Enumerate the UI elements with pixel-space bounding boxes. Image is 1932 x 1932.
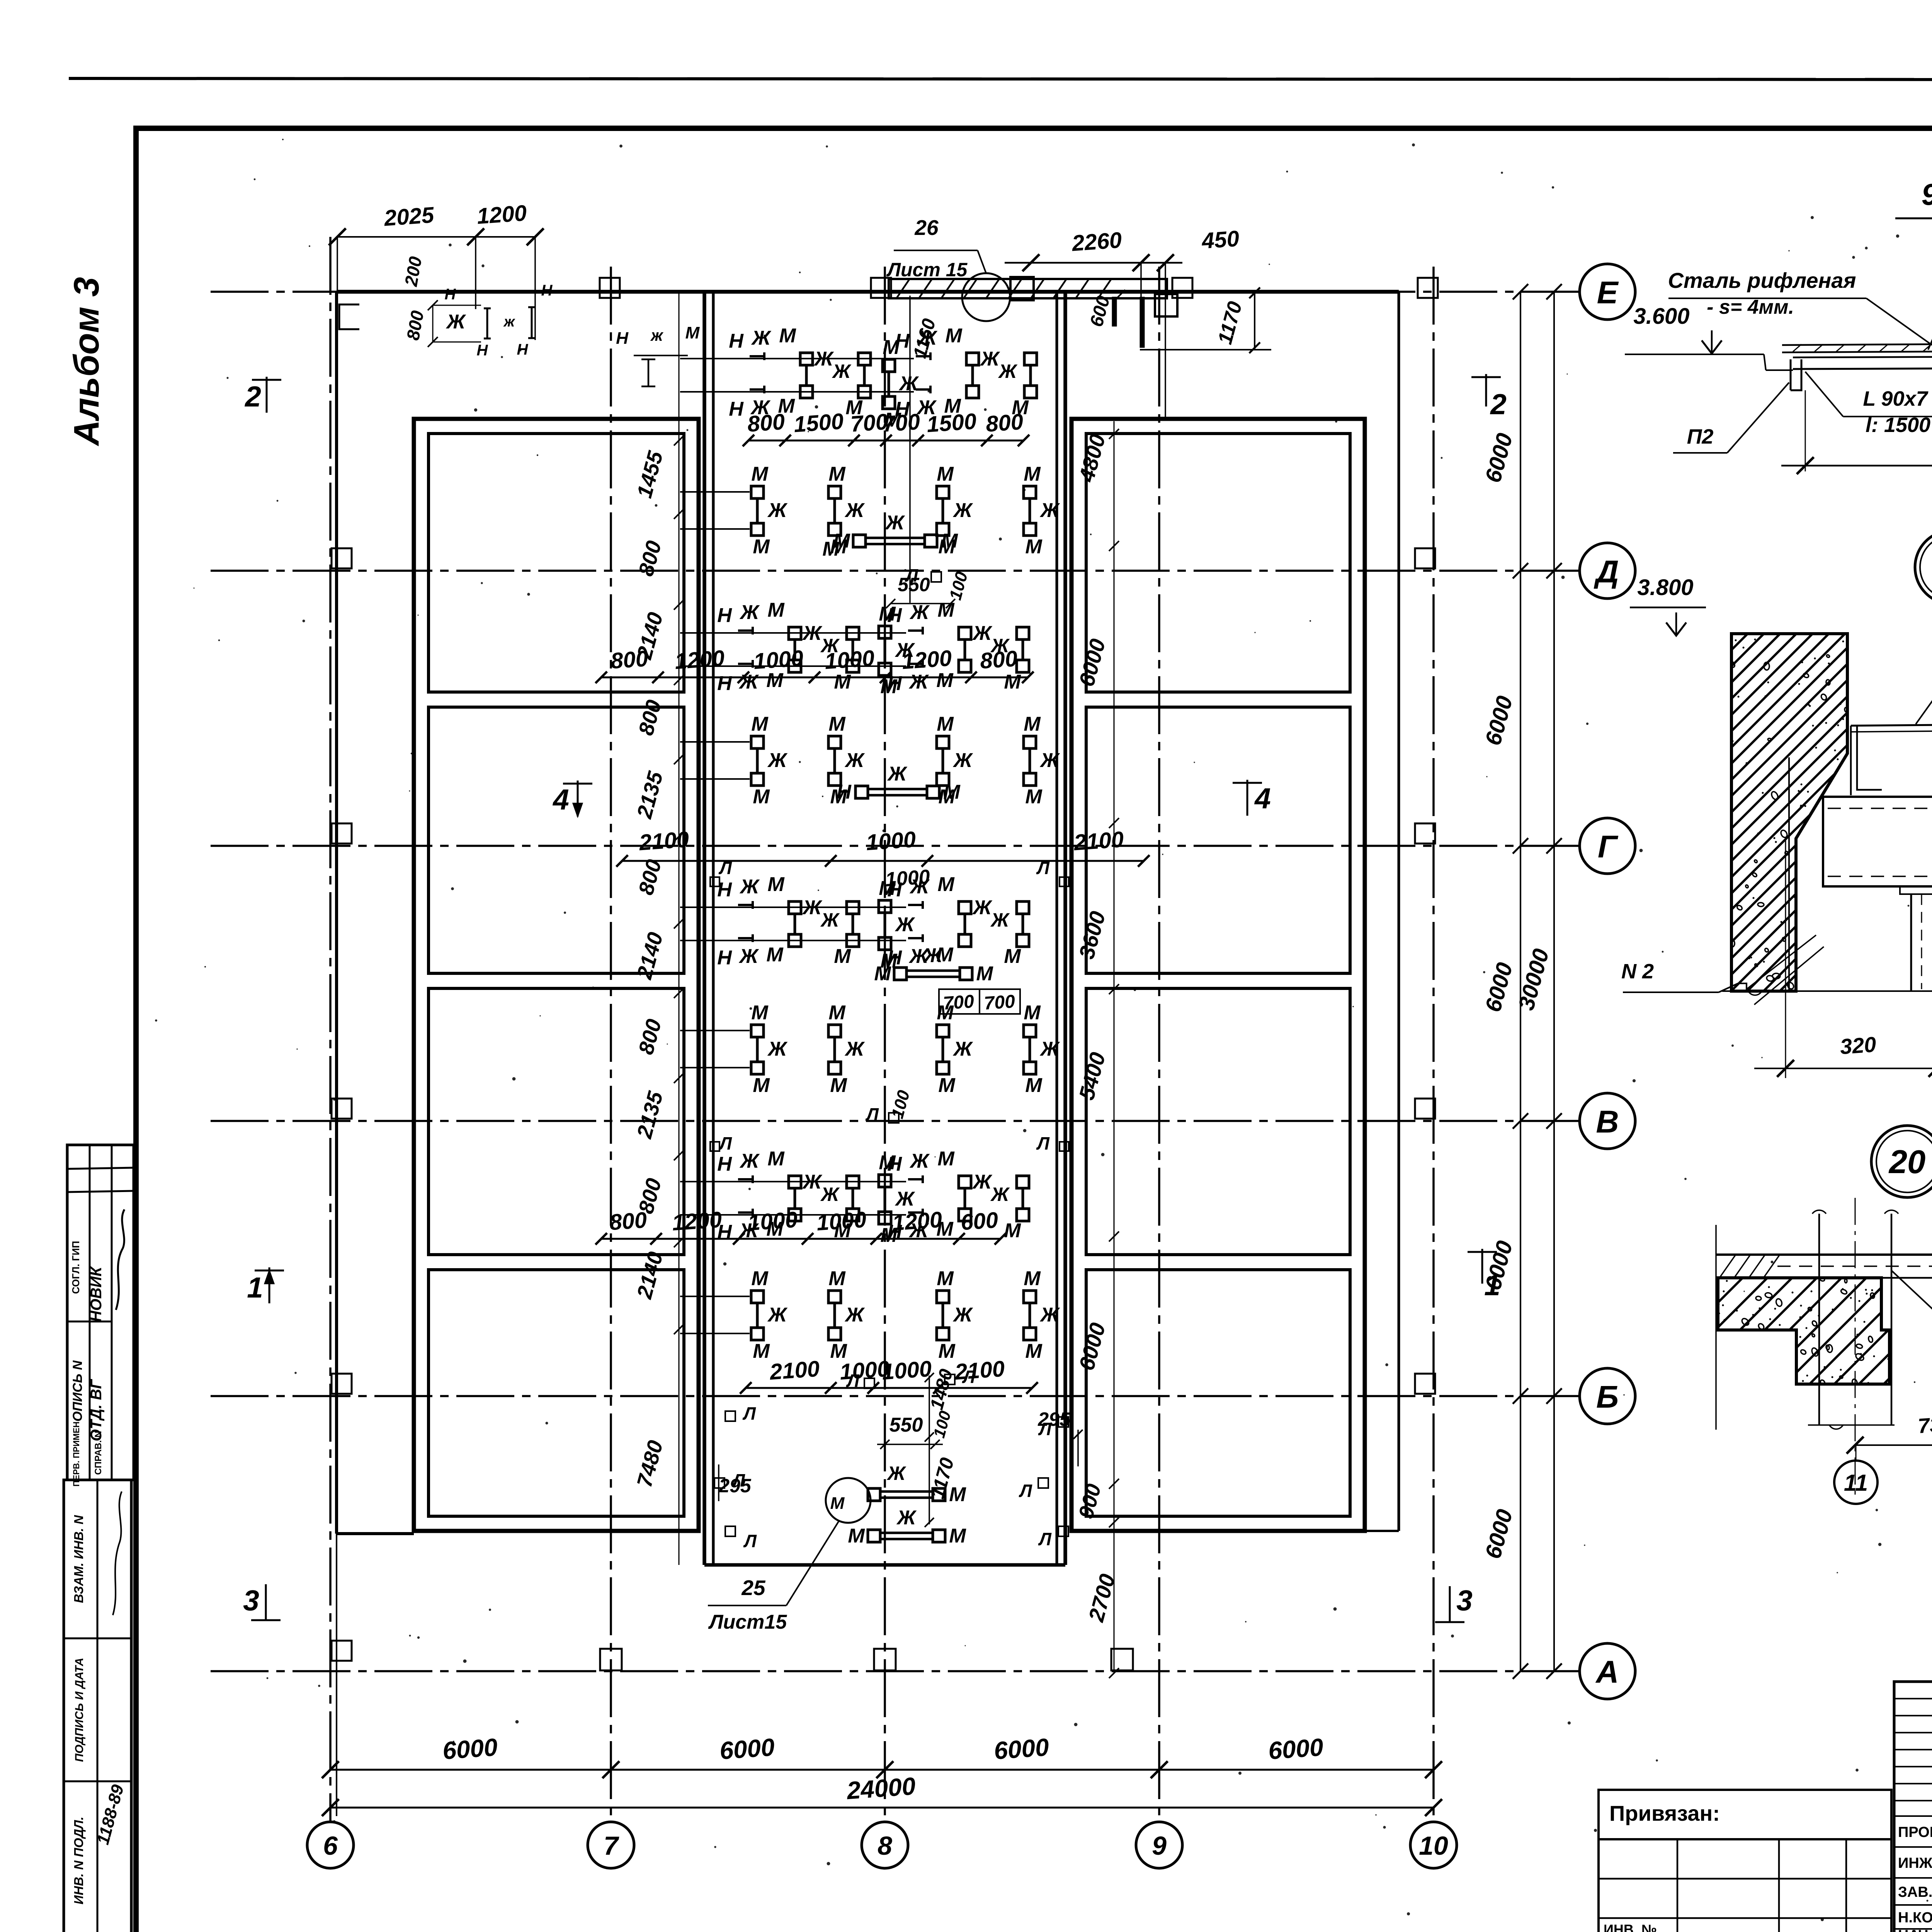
svg-text:Сталь рифленая: Сталь рифленая xyxy=(1668,268,1856,293)
beam symbol pair xyxy=(937,1291,949,1303)
Л markers bottom xyxy=(725,1411,735,1421)
svg-text:ПРОВЕР.: ПРОВЕР. xyxy=(1898,1824,1932,1840)
svg-text:Ж: Ж xyxy=(844,1304,865,1326)
left dimension chain 800/2140... xyxy=(679,294,680,1565)
detail 18 base plate xyxy=(1900,886,1932,894)
svg-text:М: М xyxy=(1004,1219,1021,1242)
svg-text:450: 450 xyxy=(1201,226,1240,254)
svg-text:М: М xyxy=(938,1074,956,1097)
svg-text:Ж: Ж xyxy=(739,876,760,898)
detail bubble 20 xyxy=(1871,1126,1932,1197)
svg-text:М: М xyxy=(879,603,896,625)
svg-text:ОПИСЬ N: ОПИСЬ N xyxy=(70,1360,85,1422)
svg-text:Ж: Ж xyxy=(895,913,915,936)
svg-text:2100: 2100 xyxy=(638,827,690,855)
svg-text:Ж: Ж xyxy=(767,749,788,772)
svg-text:4: 4 xyxy=(552,783,569,816)
axis line В xyxy=(211,1120,1580,1122)
detail 9-9 tray top plate xyxy=(1782,343,1932,345)
svg-text:Ж: Ж xyxy=(739,601,760,624)
svg-text:М: М xyxy=(751,1002,769,1024)
svg-text:М: М xyxy=(751,463,769,485)
svg-text:Н: Н xyxy=(837,781,852,803)
svg-text:800: 800 xyxy=(747,409,786,437)
detail 18 column xyxy=(1910,894,1912,991)
beam symbol horizontal xyxy=(868,1530,880,1542)
title block staff table xyxy=(1894,1682,1932,1932)
svg-text:М: М xyxy=(937,1267,954,1290)
column symbols on walls xyxy=(332,548,352,568)
svg-text:Л: Л xyxy=(865,1104,879,1124)
svg-text:М: М xyxy=(828,1267,846,1290)
svg-text:1000: 1000 xyxy=(824,646,875,674)
right dimension column 6000s xyxy=(1520,292,1521,1671)
svg-text:Н: Н xyxy=(717,879,732,901)
svg-text:М: М xyxy=(937,1148,955,1170)
tank block left cell 4 inner wall xyxy=(429,1270,684,1516)
building top wall on axis E xyxy=(337,290,1399,294)
svg-text:3.800: 3.800 xyxy=(1637,575,1693,600)
svg-text:Ж: Ж xyxy=(990,1184,1010,1205)
beam symbol horizontal xyxy=(855,786,868,798)
svg-text:Е: Е xyxy=(1597,275,1619,310)
svg-text:Ж: Ж xyxy=(972,622,993,645)
svg-text:Ж: Ж xyxy=(1039,499,1060,522)
svg-text:М: М xyxy=(943,781,961,803)
svg-text:СПРАВ. N: СПРАВ. N xyxy=(93,1431,104,1475)
svg-text:НАЧ.ОТД: НАЧ.ОТД xyxy=(1898,1927,1932,1932)
svg-text:Н: Н xyxy=(616,329,629,348)
svg-text:М: М xyxy=(766,944,784,966)
svg-text:М: М xyxy=(976,963,993,985)
building bottom wall connector right xyxy=(1365,1530,1399,1532)
svg-text:Ж: Ж xyxy=(1039,1038,1060,1060)
svg-text:М: М xyxy=(941,530,958,552)
svg-text:М: М xyxy=(874,963,891,985)
right dimension column 30000 xyxy=(1553,292,1555,1671)
svg-text:1200: 1200 xyxy=(891,1207,943,1236)
svg-text:М: М xyxy=(1025,1074,1043,1097)
svg-text:3: 3 xyxy=(1456,1584,1473,1617)
beam symbol pair xyxy=(879,626,891,638)
dimension chain xyxy=(622,860,1144,862)
svg-text:М: М xyxy=(828,1002,846,1024)
detail 20 slab band xyxy=(1716,1253,1932,1256)
svg-text:Ж: Ж xyxy=(896,1507,917,1529)
detail 9-9 dim 1300 xyxy=(1781,465,1932,467)
svg-text:Ж: Ж xyxy=(446,311,466,333)
svg-text:2: 2 xyxy=(244,380,261,413)
svg-text:24000: 24000 xyxy=(845,1772,917,1804)
svg-text:2025: 2025 xyxy=(383,202,435,231)
svg-text:800: 800 xyxy=(609,1207,648,1235)
svg-text:Л: Л xyxy=(846,1371,860,1391)
svg-text:Л: Л xyxy=(1036,1133,1050,1153)
svg-text:Л: Л xyxy=(718,1133,732,1153)
svg-text:М: М xyxy=(1004,671,1021,693)
svg-text:М: М xyxy=(937,713,954,735)
svg-text:Ж: Ж xyxy=(952,749,973,772)
svg-text:Ж: Ж xyxy=(887,763,908,785)
detail 18 ground line xyxy=(1722,990,1932,992)
beam symbol pair xyxy=(828,1025,841,1037)
svg-text:Н: Н xyxy=(541,282,553,299)
svg-text:Ж: Ж xyxy=(820,909,840,931)
beam symbol pair xyxy=(1024,736,1036,748)
axis line А xyxy=(211,1670,1580,1672)
svg-text:1200: 1200 xyxy=(901,646,952,674)
svg-text:ж: ж xyxy=(650,326,664,344)
svg-text:М: М xyxy=(1025,1340,1043,1362)
beam symbol pair xyxy=(937,1025,949,1037)
svg-text:1200: 1200 xyxy=(674,646,725,674)
beam symbol pair xyxy=(937,486,949,498)
svg-text:Ж: Ж xyxy=(980,348,1000,370)
beam symbol pair xyxy=(680,1296,750,1297)
detail 18 inner wall line xyxy=(1788,757,1790,991)
svg-text:М: М xyxy=(1024,1002,1041,1024)
grid line 6 xyxy=(329,237,332,1823)
svg-text:26: 26 xyxy=(914,216,939,240)
svg-text:СОГЛ. ГИП: СОГЛ. ГИП xyxy=(70,1241,82,1294)
tank block right cell 2 inner wall xyxy=(1086,707,1350,973)
beam symbol pair xyxy=(883,359,895,372)
svg-text:НОВИК: НОВИК xyxy=(88,1266,105,1322)
svg-text:М: М xyxy=(753,1340,770,1362)
svg-text:ВЗАМ. ИНВ. N: ВЗАМ. ИНВ. N xyxy=(71,1515,86,1603)
svg-text:Альбом 3: Альбом 3 xyxy=(67,277,106,446)
detail 20 lower break line xyxy=(1808,1424,1895,1426)
detail 20 dim 730 xyxy=(1855,1444,1932,1446)
svg-text:25: 25 xyxy=(741,1576,766,1600)
axis circle А xyxy=(1580,1643,1635,1699)
wall bracket symbol at E xyxy=(339,304,359,329)
svg-text:700: 700 xyxy=(882,409,921,437)
svg-text:М: М xyxy=(879,877,896,900)
svg-text:6: 6 xyxy=(323,1831,338,1861)
svg-text:Ж: Ж xyxy=(990,909,1010,931)
svg-text:Л: Л xyxy=(731,1470,745,1490)
svg-text:4: 4 xyxy=(1254,782,1271,815)
svg-text:6000: 6000 xyxy=(993,1733,1050,1765)
svg-text:7: 7 xyxy=(604,1831,619,1861)
svg-text:Лист15: Лист15 xyxy=(708,1611,787,1633)
beam symbol horizontal xyxy=(853,535,866,547)
svg-text:М: М xyxy=(879,1151,896,1174)
svg-text:2: 2 xyxy=(1490,388,1507,420)
svg-text:11: 11 xyxy=(1844,1470,1868,1496)
svg-text:М: М xyxy=(828,713,846,735)
grid bubble 7 xyxy=(588,1822,634,1868)
svg-text:Ж: Ж xyxy=(820,1184,840,1205)
svg-text:600: 600 xyxy=(960,1207,999,1235)
svg-text:М: М xyxy=(945,325,963,347)
beam symbol pair xyxy=(828,486,841,498)
svg-text:ПОДПИСЬ И ДАТА: ПОДПИСЬ И ДАТА xyxy=(73,1658,86,1762)
svg-text:800: 800 xyxy=(979,646,1018,674)
svg-text:3.600: 3.600 xyxy=(1633,304,1689,329)
svg-text:Ж: Ж xyxy=(952,499,973,522)
axis circle Д xyxy=(1580,543,1635,599)
svg-text:М: М xyxy=(753,536,770,558)
svg-text:Н: Н xyxy=(717,947,732,969)
svg-text:8: 8 xyxy=(878,1831,892,1861)
svg-text:Л: Л xyxy=(1038,1529,1052,1549)
svg-text:Н: Н xyxy=(717,1153,732,1175)
svg-text:М: М xyxy=(1004,945,1021,968)
top-left stanchion symbols xyxy=(484,308,491,338)
svg-text:М: М xyxy=(767,873,785,896)
beam symbol pair xyxy=(937,736,949,748)
svg-text:Ж: Ж xyxy=(895,1188,915,1210)
svg-text:Н: Н xyxy=(477,342,488,359)
top dimension line 2260/450 xyxy=(1005,262,1182,264)
grid line 8 xyxy=(884,267,886,1823)
svg-text:ИНВ. №: ИНВ. № xyxy=(1604,1922,1657,1932)
svg-text:Б: Б xyxy=(1596,1379,1619,1415)
svg-text:М: М xyxy=(937,1002,954,1024)
detail 18 dim 320 xyxy=(1785,838,1786,1078)
tank block left cell 1 inner wall xyxy=(429,434,684,692)
svg-text:М: М xyxy=(937,599,955,621)
svg-text:Н: Н xyxy=(517,341,529,358)
svg-text:ИНЖ.: ИНЖ. xyxy=(1898,1855,1932,1871)
axis line Б xyxy=(211,1395,1580,1397)
central strip left wall xyxy=(702,292,706,1565)
beam symbol pair xyxy=(680,741,750,743)
grid bubble 8 xyxy=(862,1822,908,1868)
inner dimension chain 4800... xyxy=(1114,421,1115,1673)
svg-text:М: М xyxy=(936,669,954,692)
beam symbol pair xyxy=(680,491,750,493)
svg-text:Ж: Ж xyxy=(767,1304,788,1326)
svg-text:- s= 4мм.: - s= 4мм. xyxy=(1707,296,1794,318)
bottom dimension row 24000 xyxy=(330,1807,1434,1809)
svg-text:М: М xyxy=(949,1525,966,1547)
hatched beam on axis E xyxy=(889,279,1167,298)
beam symbol pair xyxy=(1024,1025,1036,1037)
svg-text:Ж: Ж xyxy=(952,1038,973,1060)
grid bubble 9 xyxy=(1136,1822,1182,1868)
svg-text:Ж: Ж xyxy=(844,499,865,522)
svg-text:1500: 1500 xyxy=(793,409,844,437)
grid line 10 xyxy=(1432,267,1435,1823)
grid bubble 6 xyxy=(307,1822,354,1868)
svg-text:Ж: Ж xyxy=(908,671,929,693)
beam symbol pair xyxy=(828,736,841,748)
sheet top edge line xyxy=(69,78,1932,80)
svg-text:Ж: Ж xyxy=(886,1463,906,1484)
привязан table xyxy=(1599,1790,1891,1839)
svg-text:М: М xyxy=(1025,536,1043,558)
svg-text:М: М xyxy=(779,325,796,347)
svg-text:А: А xyxy=(1595,1655,1619,1690)
svg-text:2100: 2100 xyxy=(769,1356,820,1385)
svg-text:Ж: Ж xyxy=(738,945,759,968)
leader circle at beam xyxy=(962,273,1010,321)
axis line Е xyxy=(211,291,1580,293)
beam symbol pair xyxy=(680,1030,750,1031)
dimension chain xyxy=(748,440,1024,442)
svg-text:М: М xyxy=(1024,463,1041,485)
svg-text:1500: 1500 xyxy=(926,409,977,437)
svg-text:М: М xyxy=(883,336,900,359)
detail 20 left edge xyxy=(1715,1225,1717,1430)
svg-text:Ж: Ж xyxy=(751,327,772,349)
svg-text:6000: 6000 xyxy=(719,1733,776,1765)
detail 18 slab plate xyxy=(1851,724,1932,726)
beam symbol pair xyxy=(828,1291,841,1303)
svg-text:М: М xyxy=(834,671,851,693)
svg-text:L 90х7: L 90х7 xyxy=(1863,387,1929,410)
svg-text:М: М xyxy=(685,323,700,342)
svg-text:М: М xyxy=(937,463,954,485)
svg-text:Ж: Ж xyxy=(917,327,938,349)
detail bubble 11 xyxy=(1834,1461,1878,1504)
svg-text:Л: Л xyxy=(962,1367,976,1387)
svg-text:ПЕРВ. ПРИМЕН.: ПЕРВ. ПРИМЕН. xyxy=(71,1419,81,1487)
beam symbol pair xyxy=(879,900,891,913)
svg-text:Л: Л xyxy=(1019,1481,1032,1501)
svg-text:1000: 1000 xyxy=(865,827,917,855)
svg-text:Ж: Ж xyxy=(909,1150,930,1172)
svg-text:Лист 15: Лист 15 xyxy=(886,259,968,281)
svg-text:6000: 6000 xyxy=(442,1733,498,1765)
svg-text:20: 20 xyxy=(1888,1144,1926,1180)
svg-text:Н: Н xyxy=(717,604,732,627)
svg-text:М: М xyxy=(767,599,785,621)
svg-text:В: В xyxy=(1596,1104,1619,1139)
svg-text:1: 1 xyxy=(247,1271,263,1304)
svg-text:Н: Н xyxy=(717,672,732,695)
svg-text:N 2: N 2 xyxy=(1621,960,1654,983)
svg-text:10: 10 xyxy=(1419,1831,1448,1861)
axis circle В xyxy=(1580,1093,1635,1149)
svg-text:800: 800 xyxy=(985,409,1024,437)
tank block right cell 4 inner wall xyxy=(1086,1270,1350,1516)
grid line 7 xyxy=(610,267,612,1823)
svg-text:Ж: Ж xyxy=(998,361,1018,382)
svg-text:2100: 2100 xyxy=(954,1356,1005,1385)
svg-text:Ж: Ж xyxy=(767,499,788,522)
svg-text:М: М xyxy=(767,1148,785,1170)
svg-text:ИНВ. N ПОДЛ.: ИНВ. N ПОДЛ. xyxy=(71,1816,86,1904)
svg-text:Ж: Ж xyxy=(909,876,930,898)
beam symbol pair xyxy=(879,1175,891,1187)
svg-text:800: 800 xyxy=(610,646,649,674)
central strip bottom wall xyxy=(704,1563,1065,1567)
svg-text:М: М xyxy=(1025,786,1043,808)
svg-text:550: 550 xyxy=(889,1414,923,1436)
left stamp lower box xyxy=(64,1480,131,1932)
svg-text:1000: 1000 xyxy=(747,1207,798,1236)
svg-text:Ж: Ж xyxy=(972,1171,993,1193)
svg-text:М: М xyxy=(753,786,770,808)
svg-text:1200: 1200 xyxy=(476,201,527,229)
beam symbol horizontal xyxy=(868,1488,880,1501)
svg-text:Ж: Ж xyxy=(909,601,930,624)
leader circle M bottom xyxy=(826,1478,871,1523)
svg-text:700: 700 xyxy=(983,991,1016,1014)
svg-text:1200: 1200 xyxy=(671,1207,723,1236)
svg-text:М: М xyxy=(937,873,955,896)
svg-text:9: 9 xyxy=(1152,1831,1167,1861)
svg-text:Ж: Ж xyxy=(972,896,993,919)
beam symbol horizontal xyxy=(894,968,906,980)
dimension chain xyxy=(746,1387,1032,1389)
left stamp upper box xyxy=(67,1145,134,1480)
svg-text:М: М xyxy=(834,945,851,968)
svg-text:Л: Л xyxy=(1038,1419,1052,1439)
svg-text:М: М xyxy=(830,1494,845,1513)
top dimension line 2025/1200 xyxy=(337,236,535,238)
svg-text:9· 9: 9· 9 xyxy=(1922,177,1932,211)
bottom dimension row 6000s xyxy=(330,1769,1434,1771)
svg-text:М: М xyxy=(1024,1267,1041,1290)
grid line 9 xyxy=(1158,267,1160,1823)
svg-text:М: М xyxy=(822,538,840,560)
svg-text:Ж: Ж xyxy=(1039,749,1060,772)
svg-text:Л: Л xyxy=(905,565,918,585)
svg-text:П2: П2 xyxy=(1687,425,1714,448)
svg-text:Н: Н xyxy=(729,398,744,420)
svg-text:Ж: Ж xyxy=(898,372,919,395)
svg-text:М: М xyxy=(938,1340,956,1362)
svg-text:1000: 1000 xyxy=(753,646,804,674)
svg-text:М: М xyxy=(848,1525,865,1547)
axis circle Е xyxy=(1580,264,1635,320)
axis line Г xyxy=(211,845,1580,847)
svg-text:730: 730 xyxy=(1917,1412,1932,1438)
svg-text:М: М xyxy=(751,713,769,735)
svg-text:Н: Н xyxy=(729,330,744,352)
building right wall xyxy=(1398,292,1400,1531)
svg-text:2100: 2100 xyxy=(1073,827,1124,855)
svg-text:Ж: Ж xyxy=(1039,1304,1060,1326)
boxed 700 700 xyxy=(939,989,1020,1014)
axis line Д xyxy=(211,570,1580,572)
svg-text:Н.КОНТР: Н.КОНТР xyxy=(1898,1910,1932,1926)
dimension chain xyxy=(601,1238,1000,1240)
axis circle Г xyxy=(1580,818,1635,874)
beam symbol pair xyxy=(1024,1291,1036,1303)
detail 20 slab hatch left xyxy=(1719,1255,1736,1278)
svg-text:1000: 1000 xyxy=(881,1356,932,1385)
tank block left cell 2 inner wall xyxy=(429,707,684,973)
building left wall xyxy=(335,292,338,1534)
tank block right cell 3 inner wall xyxy=(1086,988,1350,1255)
dim 1170 vertical xyxy=(1254,291,1255,350)
svg-text:Л: Л xyxy=(718,858,732,878)
tank block right outer wall xyxy=(1071,419,1365,1531)
svg-text:М: М xyxy=(949,1483,966,1506)
beam symbol pair xyxy=(1024,486,1036,498)
tank block left outer wall xyxy=(414,419,699,1531)
detail 20 column lines xyxy=(1818,1214,1820,1425)
svg-text:Л: Л xyxy=(743,1531,757,1551)
svg-text:ж: ж xyxy=(503,314,515,330)
svg-text:Л: Л xyxy=(742,1403,756,1423)
svg-text:Ж: Ж xyxy=(844,749,865,772)
svg-text:ЗАВ.ГР.: ЗАВ.ГР. xyxy=(1898,1884,1932,1900)
detail bubble 18 xyxy=(1915,531,1932,604)
wall end bars with 600 gap xyxy=(1112,297,1117,327)
svg-text:М: М xyxy=(828,463,846,485)
svg-text:Ж: Ж xyxy=(767,1038,788,1060)
svg-text:Ж: Ж xyxy=(739,1150,760,1172)
detail 18 beam xyxy=(1823,797,1932,886)
detail 9-9 tray body xyxy=(1764,354,1766,370)
